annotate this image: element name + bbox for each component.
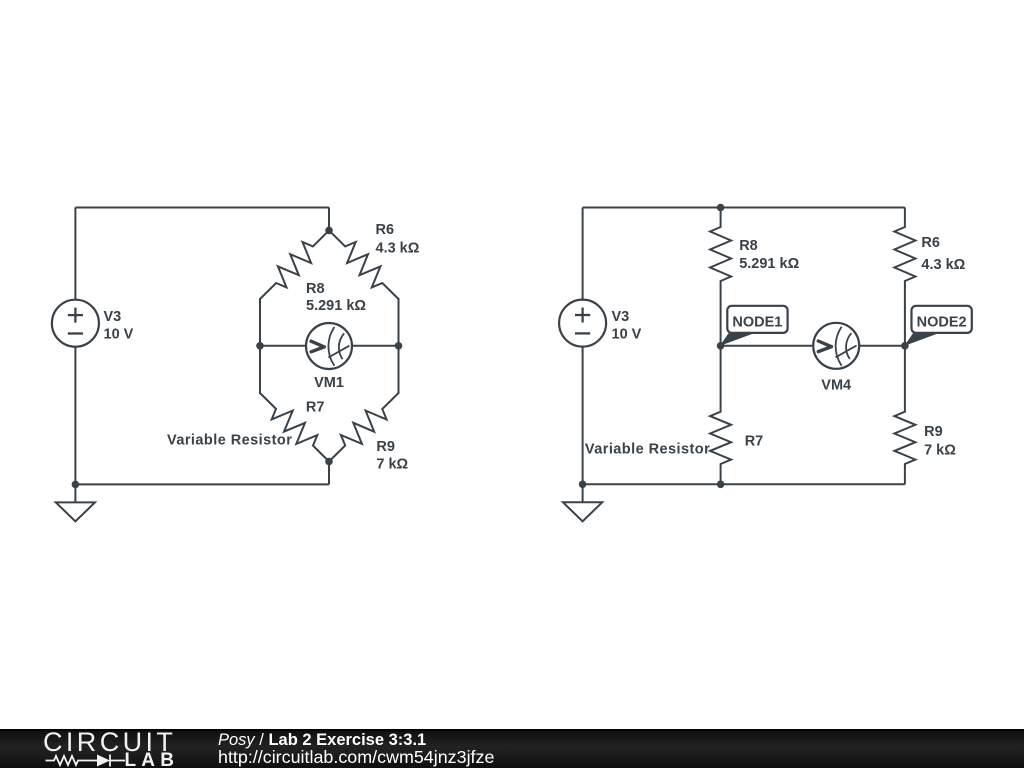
node NODE2 flag	[904, 306, 972, 346]
wire top left circuit	[75, 207, 329, 209]
svg-text:LAB: LAB	[125, 750, 180, 768]
footer bar	[0, 729, 1024, 768]
svg-text:5.291 kΩ: 5.291 kΩ	[306, 298, 366, 314]
node dot ground junction (left circuit)	[72, 481, 80, 489]
ground (left circuit)	[74, 484, 76, 502]
svg-text:R8: R8	[306, 281, 325, 297]
ground (right circuit)	[582, 484, 584, 502]
svg-text:10 V: 10 V	[612, 326, 642, 342]
wire bottom node stub (left circuit)	[328, 462, 330, 485]
voltage source V3 (left circuit)	[52, 300, 99, 347]
svg-text:R9: R9	[376, 439, 395, 455]
resistor R9 (right circuit, vertical)	[894, 346, 915, 485]
voltmeter VM4	[813, 323, 859, 369]
resistor R9 (left circuit, diagonal)	[329, 393, 399, 462]
resistor R7 (left circuit, diagonal, variable)	[260, 393, 329, 462]
svg-text:4.3 kΩ: 4.3 kΩ	[921, 257, 965, 273]
wire left rail upper (right circuit)	[582, 208, 584, 301]
svg-text:Variable Resistor: Variable Resistor	[167, 433, 292, 449]
node dot right (left circuit)	[395, 342, 403, 350]
node dot bottom (left circuit)	[325, 458, 333, 466]
wire left rail lower (left circuit)	[74, 347, 76, 485]
svg-text:7 kΩ: 7 kΩ	[376, 456, 408, 472]
node dot ground junction (right circuit)	[579, 481, 587, 489]
svg-text:R6: R6	[376, 222, 395, 238]
resistor R7 (right circuit, vertical, variable)	[710, 346, 731, 485]
resistor R8 (right circuit, vertical)	[710, 208, 731, 346]
wire left rail upper (left circuit)	[74, 208, 76, 301]
wire top (right circuit)	[583, 207, 905, 209]
svg-text:R7: R7	[306, 399, 325, 415]
resistor R8 (left circuit, diagonal)	[260, 230, 329, 299]
wire left rail lower (right circuit)	[582, 347, 584, 485]
wire bottom (left circuit)	[75, 483, 329, 485]
svg-text:5.291 kΩ: 5.291 kΩ	[739, 256, 799, 272]
node NODE1 flag	[720, 306, 788, 346]
footer caption text	[218, 732, 494, 767]
node dot top junction (right circuit)	[717, 204, 725, 212]
wire bottom (right circuit)	[583, 483, 905, 485]
CircuitLab logo	[42, 729, 182, 768]
node dot left (left circuit)	[256, 342, 264, 350]
svg-text:V3: V3	[104, 309, 122, 325]
svg-text:7 kΩ: 7 kΩ	[924, 442, 956, 458]
svg-text:V3: V3	[612, 309, 630, 325]
wire bridge right vertical	[398, 298, 400, 394]
svg-text:R7: R7	[745, 434, 764, 450]
voltage source V3 (right circuit)	[559, 300, 606, 347]
svg-text:NODE1: NODE1	[732, 315, 782, 331]
logo resistor-diode glyph	[46, 755, 126, 767]
svg-text:VM1: VM1	[314, 375, 344, 391]
svg-text:R8: R8	[739, 238, 758, 254]
voltmeter VM1	[306, 323, 352, 369]
node dot top (left circuit)	[325, 227, 333, 235]
svg-text:VM4: VM4	[821, 378, 851, 394]
svg-text:Variable Resistor: Variable Resistor	[585, 442, 710, 458]
svg-text:10 V: 10 V	[104, 326, 134, 342]
svg-text:R9: R9	[924, 424, 943, 440]
wire VM4 row	[721, 345, 905, 347]
node dot bottom R7 junction (right circuit)	[717, 481, 725, 489]
svg-text:NODE2: NODE2	[917, 315, 967, 331]
node NODE2 dot	[901, 342, 909, 350]
resistor R6 (left circuit, diagonal)	[329, 230, 399, 299]
wire top node stub (left circuit)	[328, 208, 330, 231]
wire bridge left vertical	[259, 298, 261, 394]
node NODE1 dot	[717, 342, 725, 350]
svg-text:R6: R6	[921, 235, 940, 251]
svg-text:4.3 kΩ: 4.3 kΩ	[376, 240, 420, 256]
resistor R6 (right circuit, vertical)	[894, 208, 915, 346]
wire VM1 row	[260, 345, 399, 347]
